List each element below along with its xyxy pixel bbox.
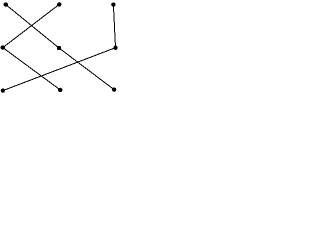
wire edge TM-ML (3, 4, 59, 47)
node BM (58, 88, 62, 92)
wire edge ML-BM (3, 48, 60, 90)
node TM (57, 2, 61, 6)
wire edge TL-MC (6, 5, 59, 48)
graph drawing: 9 vertices, 6 edges (0, 0, 122, 102)
node ML (1, 45, 5, 49)
node BR (112, 87, 116, 91)
wire edge MR-BL (3, 48, 116, 91)
wire edge TR-MR (113, 5, 115, 48)
node TR (111, 2, 115, 6)
node MC (57, 46, 61, 50)
node MR (113, 46, 117, 50)
node BL (1, 88, 5, 92)
node TL (4, 2, 8, 6)
wire edge MC-BR (59, 48, 114, 90)
